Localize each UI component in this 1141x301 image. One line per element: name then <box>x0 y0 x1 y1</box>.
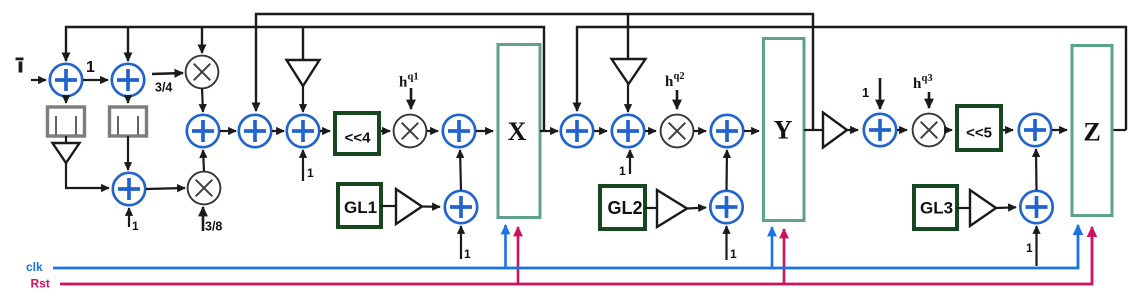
svg-text:1: 1 <box>862 85 869 100</box>
multiplier M5 <box>913 114 946 147</box>
svg-text:q3: q3 <box>922 73 933 84</box>
wire T5 to adder B5 <box>687 208 706 209</box>
svg-text:GL2: GL2 <box>607 198 642 218</box>
svg-text:1: 1 <box>730 247 737 261</box>
svg-text:<<5: <<5 <box>966 125 992 142</box>
adder A1 <box>50 64 82 96</box>
wire C1 to multiplier M5 <box>897 129 907 131</box>
register Z <box>1072 46 1112 216</box>
wire T2 to adder B2 <box>627 84 629 112</box>
amplifier triangle T3 <box>823 113 847 148</box>
wire constant 1 into B2 <box>629 150 631 174</box>
wire B5 up to adder B4 <box>725 150 728 190</box>
multiplier M2 <box>188 172 221 205</box>
wire Rst arrow into X <box>517 227 520 284</box>
wire A8 up to adder A7 <box>460 150 461 190</box>
svg-text:GL3: GL3 <box>920 199 953 218</box>
block GL3 <box>914 186 957 229</box>
svg-text:<<4: <<4 <box>345 130 372 147</box>
svg-text:1: 1 <box>619 164 626 178</box>
adder A6 <box>287 115 319 147</box>
amplifier triangle T0 <box>53 143 80 163</box>
amplifier triangle T5 <box>657 190 687 227</box>
wire constant 1 into C1 <box>879 78 882 109</box>
wire A1 to A2 <box>83 79 108 81</box>
wire A6 to shifter <box>320 130 330 132</box>
svg-text:1: 1 <box>132 219 139 233</box>
wire feedback line B (X output to input adders) <box>66 27 544 131</box>
wire constant 3/8 into M2 <box>202 207 205 231</box>
wire M1 down to adder A4 <box>202 88 203 112</box>
wire M5 to shifter <<5 <box>946 129 952 131</box>
svg-text:q1: q1 <box>408 72 419 83</box>
block GL2 <box>600 186 645 229</box>
wire A2 to register R2 <box>127 96 129 103</box>
wire GL2 to triangle T5 <box>645 207 657 209</box>
wire feedback line B2 (Z output to adder B1) <box>577 27 1126 130</box>
wire clk arrow into X <box>504 225 507 268</box>
amplifier triangle T6 <box>970 190 996 226</box>
svg-text:Y: Y <box>774 116 793 145</box>
wire A5 to A6 <box>272 130 284 132</box>
svg-text:Rst: Rst <box>31 277 50 291</box>
adder C1 <box>864 114 896 146</box>
svg-text:3/8: 3/8 <box>205 220 222 234</box>
wire T6 to adder C4 <box>996 206 1016 209</box>
wire Y output to triangle T3 <box>804 129 823 131</box>
adder B2 <box>612 115 644 147</box>
wire B1 to B2 <box>594 130 607 132</box>
register R2 <box>110 107 147 136</box>
svg-text:X: X <box>508 117 527 146</box>
wire C3 to register Z <box>1052 129 1067 131</box>
wire A4 to A5 <box>220 130 236 132</box>
wire constant 1 into A6 <box>302 150 304 181</box>
wire A7 to register X <box>476 130 493 132</box>
wire Rst rail <box>60 227 1092 284</box>
adder A8 <box>445 191 477 223</box>
svg-text:1: 1 <box>464 247 471 261</box>
amplifier triangle T2 <box>612 59 646 84</box>
wire C4 up to adder C3 <box>1035 149 1038 190</box>
wire B2 to multiplier M4 <box>645 130 656 132</box>
wire M4 to adder B4 <box>694 130 706 132</box>
shifter block <<4 <box>335 113 379 154</box>
wire X output to adder B1 <box>540 130 558 132</box>
adder A3 <box>113 173 145 205</box>
adder C3 <box>1019 114 1051 146</box>
svg-text:1: 1 <box>1026 241 1033 255</box>
svg-text:3/4: 3/4 <box>155 81 172 95</box>
wire M3 to adder A7 <box>427 130 438 132</box>
wire constant 3/4 arrow into M1 <box>152 73 183 74</box>
wire shifter to multiplier M3 <box>381 130 390 132</box>
adder A7 <box>443 115 475 147</box>
wire T1 to adder A6 <box>302 86 304 112</box>
wire Z output up to feedback line B2 <box>1114 129 1127 131</box>
wire line B drop to adder A2 <box>127 27 129 61</box>
wire B4 to register Y <box>744 130 759 132</box>
adder A4 <box>187 115 219 147</box>
multiplier M3 <box>394 115 427 148</box>
wire line A drop to triangle T2 <box>627 15 629 59</box>
wire constant 1 into C4 <box>1035 226 1037 266</box>
wire constant 1 into A3 <box>128 208 130 227</box>
wire M2 up to adder A4 <box>203 150 204 171</box>
wire clk rail <box>53 225 1078 268</box>
adder C4 <box>1020 191 1052 223</box>
register R1 <box>48 107 85 136</box>
wire constant 1 into B5 <box>725 226 727 260</box>
svg-text:clk: clk <box>26 260 43 274</box>
node input i label <box>16 58 24 61</box>
wire Rst arrow into Y <box>783 229 786 284</box>
adder B4 <box>711 115 743 147</box>
amplifier triangle T4 <box>396 189 422 224</box>
amplifier triangle T1 <box>287 60 320 86</box>
shifter block <<5 <box>957 106 1001 150</box>
wire feedback line A (Y output to adder A5 and triangle T2) <box>256 14 813 130</box>
wire GL3 to triangle T6 <box>957 207 970 209</box>
adder A5 <box>239 115 271 147</box>
svg-text:q2: q2 <box>674 71 685 82</box>
wire R2 to adder A3 <box>127 136 129 170</box>
wire A3 to multiplier M2 <box>146 188 185 189</box>
wire constant 1 into A8 <box>460 226 462 259</box>
register X <box>498 45 540 218</box>
block GL1 <box>338 184 381 227</box>
wire R1 to triangle T0 <box>65 136 67 143</box>
adder A2 <box>112 64 144 96</box>
wire T0 to adder A3 <box>66 163 109 188</box>
wire h q3 into M5 <box>928 92 931 108</box>
wire line B drop to multiplier M1 <box>201 27 203 53</box>
wire h q2 into M4 <box>676 90 679 109</box>
multiplier M4 <box>661 115 694 148</box>
svg-text:Z: Z <box>1083 118 1100 147</box>
svg-text:GL1: GL1 <box>344 198 377 217</box>
adder B1 <box>561 115 593 147</box>
wire T3 to adder C1 <box>847 129 858 131</box>
svg-text:1: 1 <box>86 59 95 76</box>
multiplier M1 <box>186 56 219 89</box>
wire GL1 to triangle T4 <box>381 205 396 207</box>
register Y <box>764 39 805 221</box>
wire A1 to register R1 <box>65 96 67 103</box>
wire h q1 into M3 <box>410 88 413 109</box>
adder B5 <box>710 191 742 223</box>
svg-text:1: 1 <box>307 166 314 180</box>
wire shifter to adder C3 <box>1003 129 1013 131</box>
wire clk arrow into Y <box>771 227 774 268</box>
wire line B drop to triangle T1 <box>302 27 304 60</box>
wire T4 to adder A8 <box>422 205 440 208</box>
wire input arrow into A1 <box>31 79 46 81</box>
